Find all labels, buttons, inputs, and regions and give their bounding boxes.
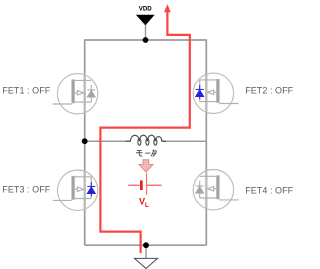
label motor (katakana mo-ta drawn as paths) [136, 150, 156, 157]
inductor L1 motor coil [126, 135, 166, 145]
wire top rail [85, 39, 207, 41]
transistor Q2 FET2 [193, 73, 238, 113]
diode D1 body diode of FET1 (gray) [87, 90, 95, 97]
node junction dot at ground [143, 242, 149, 248]
node junction dot at VDD [143, 37, 149, 43]
battery VL induced voltage symbol (red) [128, 173, 161, 195]
diode D3 body diode of FET3 (blue, conducting) [87, 182, 95, 196]
wire red current path through D3/motor/D2 [100, 11, 189, 253]
wire motor rail right segment [162, 140, 206, 142]
diode D4 body diode of FET4 (gray) [196, 186, 204, 193]
power VDD symbol [136, 6, 155, 26]
wire motor rail left segment [85, 140, 130, 142]
red current path arrowhead into VDD [164, 4, 171, 12]
svg-text:FET4 : OFF: FET4 : OFF [245, 186, 293, 196]
wire VDD stem [145, 25, 147, 40]
wire left rail [84, 39, 86, 245]
svg-text:L: L [145, 202, 149, 209]
node junction dot at motor left [82, 138, 88, 144]
motor current direction block arrow (pink) [139, 160, 153, 172]
wire right rail [205, 39, 207, 245]
svg-text:FET2 : OFF: FET2 : OFF [245, 85, 293, 95]
svg-text:FET1 : OFF: FET1 : OFF [2, 86, 50, 96]
transistor Q4 FET4 [193, 170, 238, 210]
transistor Q3 FET3 [53, 170, 98, 210]
wire bottom rail [85, 244, 207, 246]
svg-text:VDD: VDD [139, 6, 152, 13]
wire ground stem [145, 245, 147, 258]
diode D2 body diode of FET2 (blue, conducting) [196, 85, 204, 99]
svg-text:FET3 : OFF: FET3 : OFF [2, 185, 50, 195]
transistor Q1 FET1 [53, 74, 98, 114]
ground symbol [135, 258, 158, 268]
